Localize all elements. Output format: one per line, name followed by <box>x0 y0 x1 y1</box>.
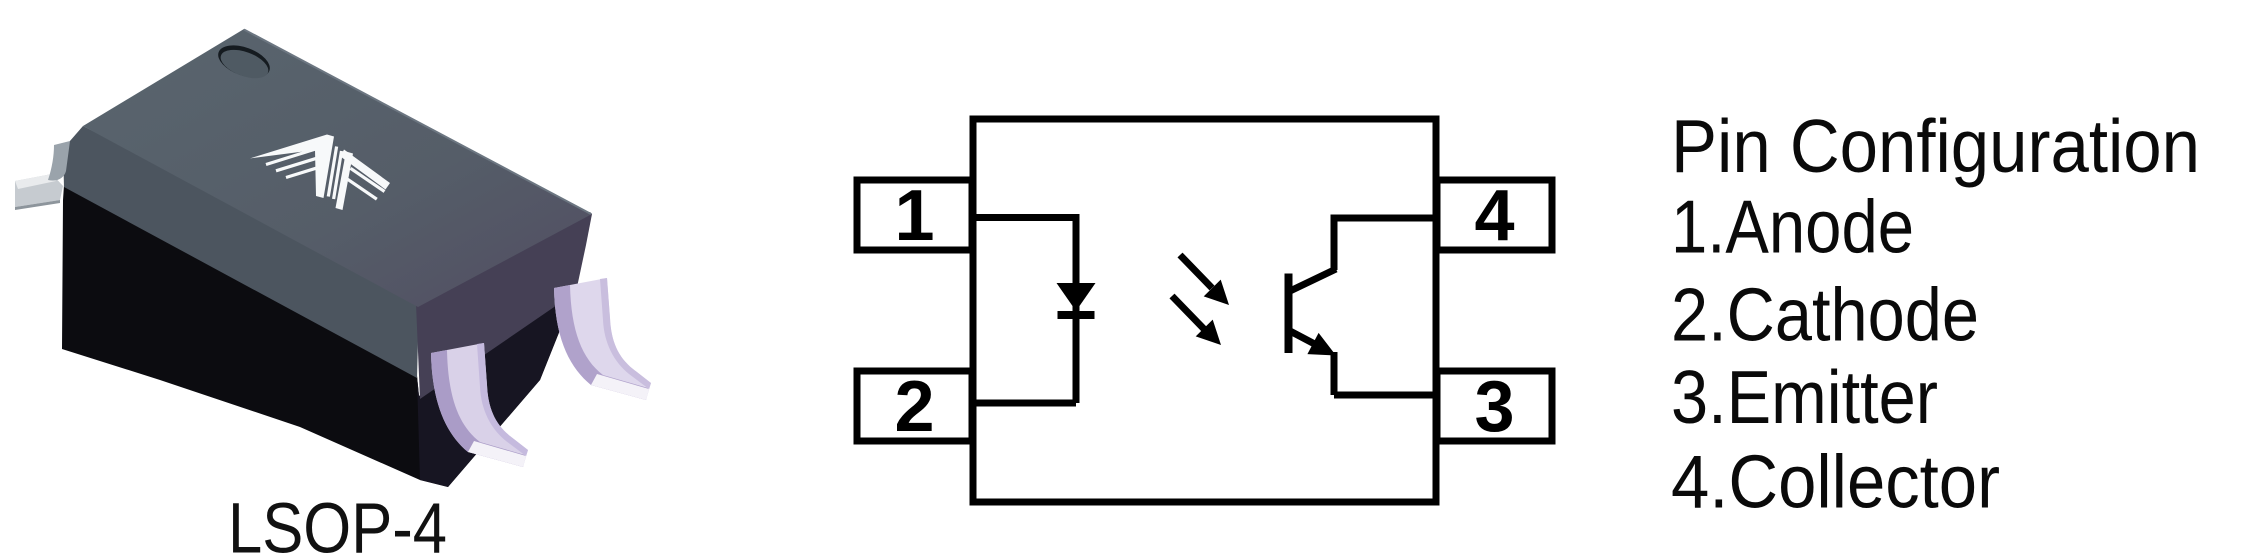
package top face <box>83 29 592 307</box>
package outline rectangle <box>973 119 1436 502</box>
LED D1 cathode bar <box>1058 311 1095 319</box>
logo on package <box>250 135 390 211</box>
wire collector diagonal <box>1289 269 1336 292</box>
wire anode (pin1 to LED) <box>972 214 1076 221</box>
wire emitter diagonal <box>1290 331 1326 350</box>
wire LED vertical <box>1073 214 1080 403</box>
transistor base bar <box>1285 274 1293 354</box>
pin 4 box <box>1437 180 1552 250</box>
svg-text:4.Collector: 4.Collector <box>1671 440 2000 524</box>
pin (front right, package lead) <box>554 278 651 400</box>
light arrow 1 head <box>1204 280 1229 305</box>
wire emitter vertical <box>1331 352 1338 395</box>
svg-text:Pin Configuration: Pin Configuration <box>1671 104 2200 188</box>
pin 1 box <box>857 180 972 250</box>
svg-text:3.Emitter: 3.Emitter <box>1671 355 1938 439</box>
pin-1 indicator dimple <box>214 39 274 84</box>
svg-text:LSOP-4: LSOP-4 <box>228 490 447 553</box>
svg-text:1: 1 <box>894 176 934 256</box>
package LSOP-4 3D body: black lower molding <box>62 185 576 487</box>
emitter arrowhead <box>1307 333 1336 356</box>
light arrow 2 head <box>1196 320 1221 345</box>
light arrow 2 shaft <box>1172 296 1204 329</box>
pin 3 box <box>1437 371 1552 441</box>
pin (left, package lead) <box>15 174 63 207</box>
package right end wall <box>416 212 592 399</box>
wire cathode (pin2 to LED) <box>972 400 1076 407</box>
package front-left side wall <box>63 126 419 378</box>
top face edge highlight <box>244 30 591 215</box>
svg-text:2: 2 <box>894 367 934 447</box>
svg-text:2.Cathode: 2.Cathode <box>1671 273 1979 357</box>
pin 2 box <box>857 371 972 441</box>
schematic group <box>857 119 1552 502</box>
pin (front center, package lead) <box>431 343 528 467</box>
svg-text:1.Anode: 1.Anode <box>1671 185 1914 269</box>
wire collector vertical <box>1331 215 1338 271</box>
svg-text:4: 4 <box>1474 176 1514 256</box>
light arrow 1 shaft <box>1180 255 1212 288</box>
wire collector (transistor to pin4) <box>1334 215 1437 222</box>
pin configuration text block <box>1671 104 2200 524</box>
svg-text:3: 3 <box>1474 367 1514 447</box>
wire emitter (transistor to pin3) <box>1334 392 1437 399</box>
LED D1 triangle <box>1057 283 1096 311</box>
